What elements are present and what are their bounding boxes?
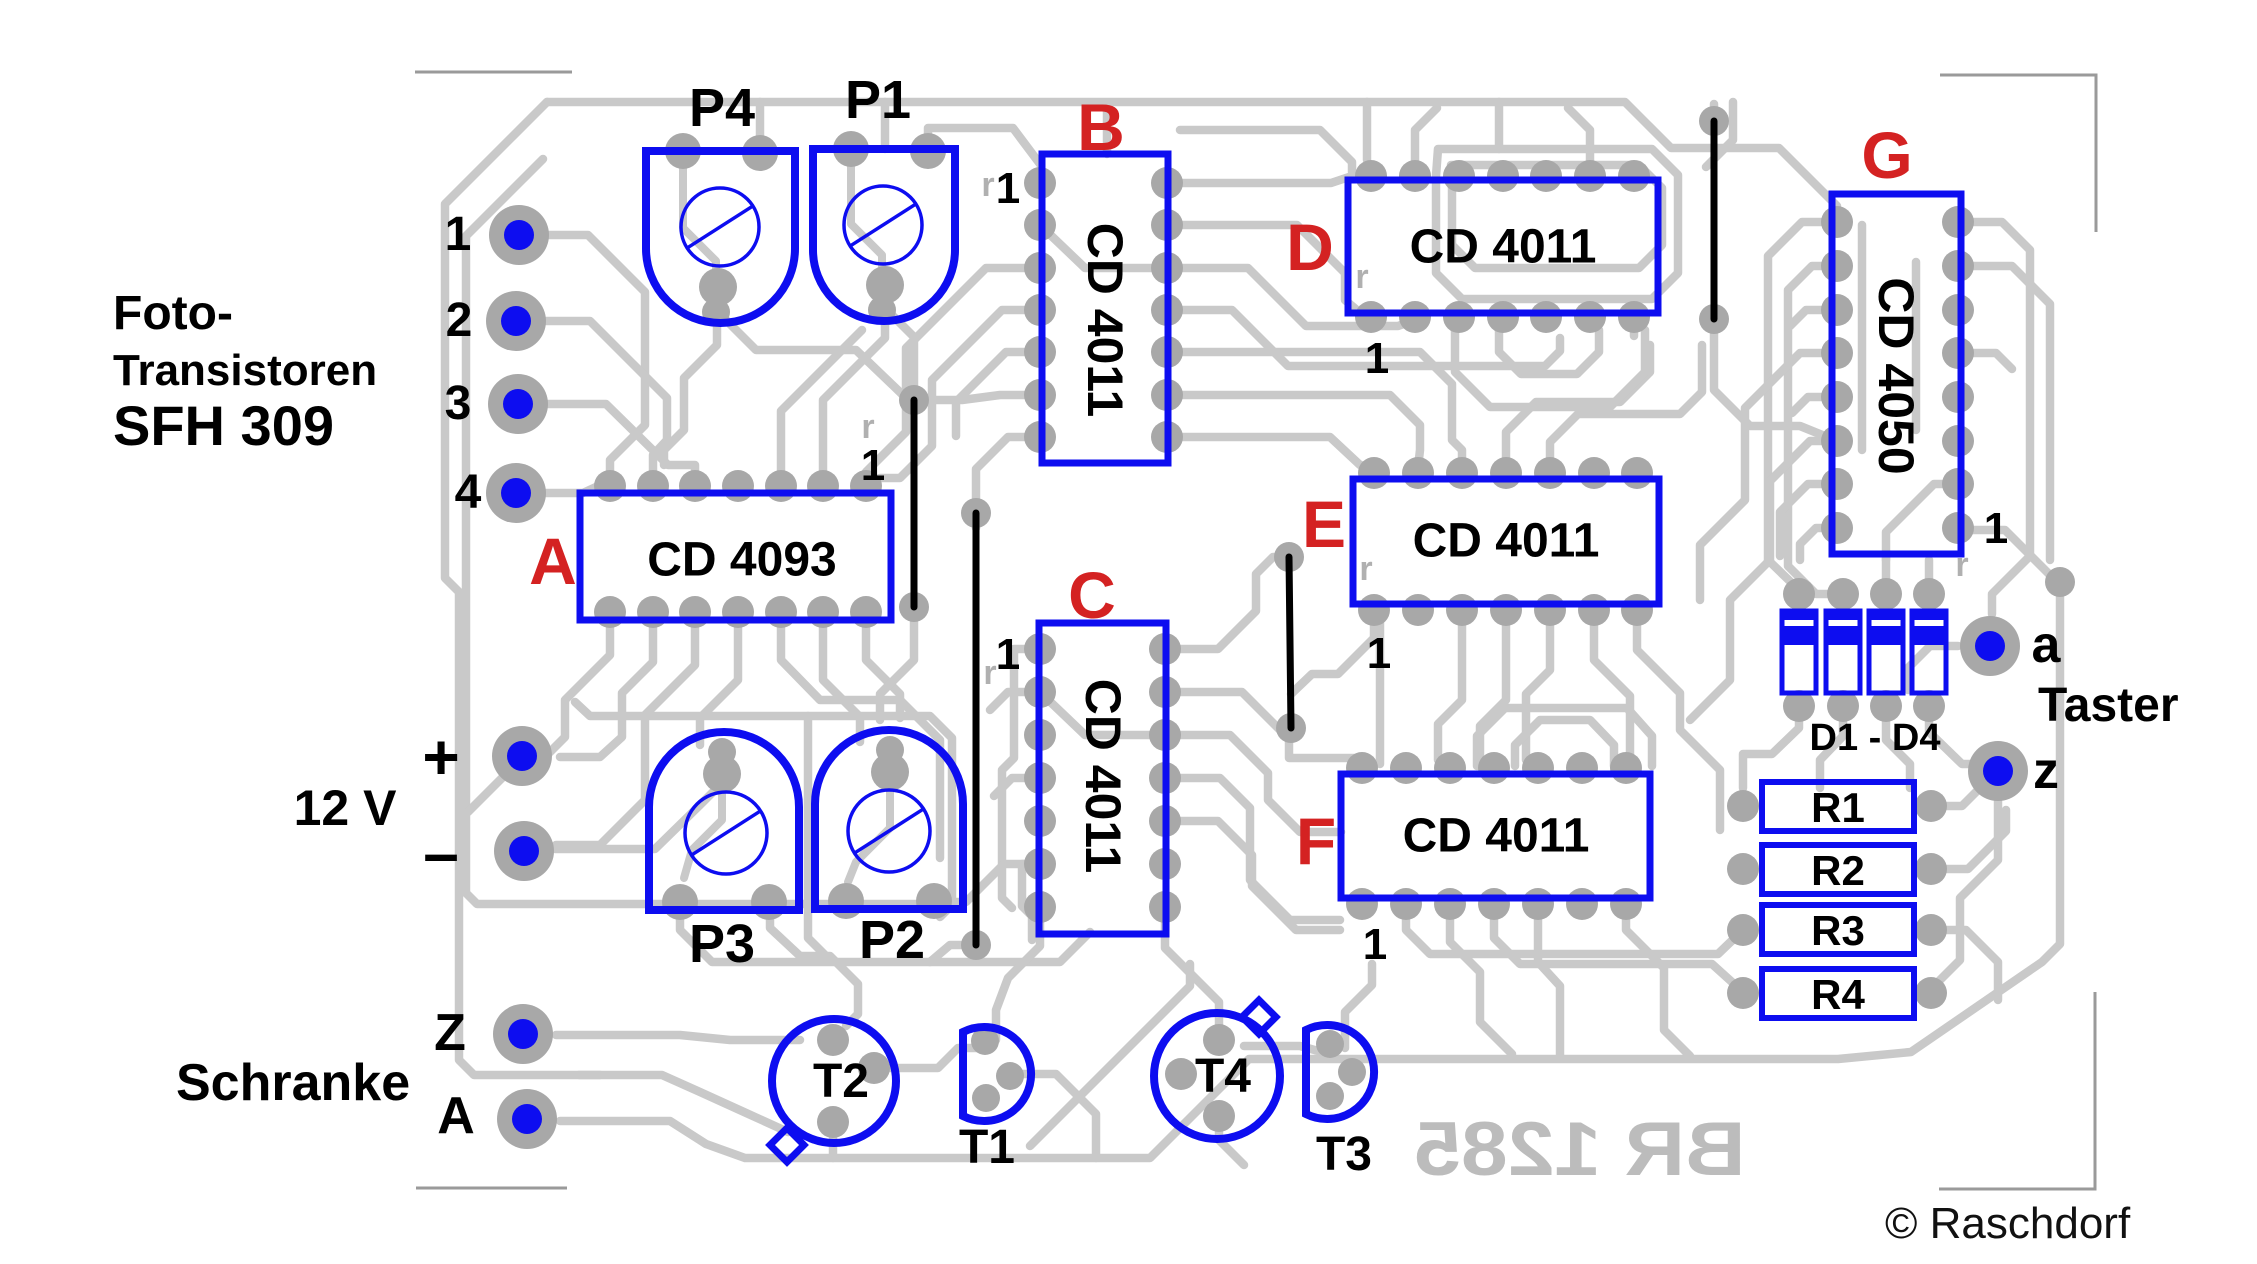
wire P2 interior vertical: [848, 778, 890, 882]
connector pin 3 pad: [488, 374, 548, 434]
connector a pad: [1960, 616, 2020, 676]
diode D1: [1780, 609, 1818, 693]
svg-text:P1: P1: [845, 70, 911, 130]
wire P1 interior vertical: [851, 153, 882, 287]
svg-text:A: A: [529, 524, 577, 598]
svg-text:a: a: [2032, 616, 2062, 674]
wire board outline left edge inner: [466, 159, 940, 904]
wire jumper W2 bottom pad left: [930, 945, 976, 962]
wire IC B right staircase 3: [1167, 352, 1462, 468]
pin1 arrow IC C: [983, 654, 996, 692]
svg-text:G: G: [1861, 118, 1912, 192]
wire IC G right to a pad: [1958, 222, 2030, 614]
wire IC A bottom to P3 area: [700, 623, 738, 745]
trimmer P3: [649, 732, 799, 910]
resistor R3: [1762, 905, 1914, 954]
red letter D: [1286, 210, 1334, 284]
connector A pad: [497, 1089, 557, 1149]
wire board outline left edge outer: [445, 102, 600, 1075]
wire P1 region to jumper W1: [889, 312, 914, 392]
label Transistoren: [113, 346, 377, 395]
wire E left to jumper W3 bottom: [1291, 610, 1374, 694]
wire horizontal above P3 P2: [575, 702, 952, 917]
wire IC B right staircase 1: [1167, 268, 1415, 326]
svg-text:R3: R3: [1811, 907, 1865, 954]
label P1: [845, 70, 911, 130]
wire between trimmers vertical: [808, 716, 828, 958]
wire G left to D3: [1886, 484, 1958, 586]
wire IC B left pads to IC A bundle 1: [866, 268, 1040, 480]
wire G left staircase 5: [1700, 353, 1837, 600]
svg-text:4: 4: [455, 466, 482, 519]
jumper wire W3: [1274, 542, 1306, 743]
svg-text:r: r: [1359, 550, 1372, 588]
wire arc below D inner: [1499, 330, 1599, 374]
svg-text:r: r: [983, 654, 996, 692]
wire plus pad diagonal to edge: [468, 758, 522, 812]
label Taster: [2038, 679, 2179, 732]
svg-text:CD 4011: CD 4011: [1410, 221, 1597, 274]
diode pads D1-D4: [1783, 578, 1945, 722]
wire jumper W1 bottom down: [880, 622, 914, 720]
wire C left pad stub 1: [990, 692, 1040, 710]
red letter F: [1296, 804, 1336, 878]
wire hook above D left: [1415, 108, 1437, 170]
wire E bottom to F top 2: [1526, 610, 1550, 760]
IC B outline: [1042, 154, 1168, 463]
board number BR 1285 (mirrored): [1415, 1107, 1746, 1192]
wire stub above D4: [1925, 560, 1934, 592]
trimmer P1: [813, 149, 955, 321]
wire T2 to T1: [874, 1048, 978, 1068]
wire ring inner around IC D: [1451, 165, 1662, 268]
wire IC G left bundle down to D1: [1768, 222, 1837, 590]
svg-text:2: 2: [446, 294, 473, 347]
wire IC G left pad stub 3: [1790, 310, 1837, 326]
wire C bottom to T1: [996, 907, 1040, 1040]
IC D label: [1410, 221, 1597, 274]
svg-text:R1: R1: [1811, 784, 1865, 831]
wire R2 right stub: [1931, 810, 2006, 869]
IC D pads: [1355, 160, 1650, 333]
IC C pads: [1024, 633, 1181, 923]
wire minus pad to P3 wiper: [555, 783, 722, 849]
wire IC B right pad row2 to IC D pin1: [1167, 225, 1365, 317]
svg-text:Z: Z: [434, 1004, 466, 1062]
wire via near right edge: [2045, 567, 2075, 597]
wire C right extra 1: [1165, 821, 1340, 930]
label 12 V: [294, 780, 398, 836]
diode D4: [1910, 609, 1948, 693]
wire ring outer around IC D: [1436, 149, 1678, 299]
svg-text:T3: T3: [1316, 1128, 1372, 1181]
transistor T4 pads: [1165, 1024, 1235, 1132]
corner mark top-right: [1940, 75, 2096, 232]
red letter C: [1068, 558, 1116, 632]
svg-text:1: 1: [445, 208, 472, 261]
wire D4 bottom to z pad: [1929, 706, 1984, 764]
trimmer P3 pads: [662, 738, 787, 920]
wire F bottom vertical 1: [1450, 904, 1512, 1054]
wire E top to under D 1: [1506, 345, 1650, 468]
wire G interior vertical 1: [1858, 225, 1867, 450]
svg-text:Foto-: Foto-: [113, 287, 233, 340]
wire E bottom to F top 1: [1438, 610, 1462, 760]
label A connector: [437, 1087, 475, 1145]
connector plus pad: [492, 726, 552, 786]
resistor R2 label: [1811, 847, 1865, 894]
label plus: [422, 721, 459, 793]
wire corner to T2 tab: [579, 1075, 788, 1132]
pin1 mark IC B: [996, 164, 1020, 213]
wire E bottom to F top 4: [1480, 610, 1506, 760]
IC C label: [1075, 679, 1131, 874]
wire G bottom pads down: [1882, 554, 1891, 560]
IC A pads: [594, 470, 882, 628]
wire G left staircase 6: [1690, 441, 1837, 720]
resistor R4 label: [1811, 971, 1865, 1018]
wire A bottom nested fan: [556, 623, 695, 845]
svg-text:z: z: [2033, 742, 2059, 800]
connector pin 2 pad: [486, 291, 546, 351]
IC F label: [1403, 810, 1590, 863]
svg-text:D: D: [1286, 210, 1334, 284]
jumper wire W1: [899, 385, 929, 622]
resistor R2: [1762, 845, 1914, 894]
label z: [2033, 742, 2059, 800]
wire left of C vertical 2: [1022, 864, 1040, 940]
wire jumper W4 bottom to IC G: [1714, 319, 1837, 441]
wire jumper W4 top to edge: [1710, 104, 1719, 121]
pin1 arrow IC E: [1359, 550, 1372, 588]
svg-text:1: 1: [1363, 920, 1387, 969]
pin1 arrow IC B: [981, 166, 994, 204]
IC F outline: [1341, 774, 1650, 898]
pin1 mark IC D: [1365, 334, 1389, 383]
svg-text:R2: R2: [1811, 847, 1865, 894]
wire T3 stub up: [1345, 964, 1372, 1048]
wire IC B left pads to IC A bundle 2: [880, 310, 1040, 478]
svg-text:D1 - D4: D1 - D4: [1810, 717, 1941, 759]
svg-text:P3: P3: [689, 914, 755, 974]
label minus: [423, 817, 459, 889]
jumper wire W4: [1699, 106, 1729, 334]
wire D2 bottom down: [1820, 706, 1843, 788]
label SFH 309: [113, 394, 334, 457]
wire C left pad stub 2: [994, 778, 1040, 796]
IC B pads: [1024, 167, 1183, 453]
svg-text:1: 1: [1365, 334, 1389, 383]
label pin 1: [445, 208, 472, 261]
svg-text:CD 4011: CD 4011: [1403, 810, 1590, 863]
IC E pads: [1358, 457, 1653, 626]
label Schranke: [176, 1054, 410, 1112]
wire IC A bottom fan 2: [560, 623, 653, 757]
wire IC G right pad stub: [1958, 353, 2012, 369]
svg-text:r: r: [981, 166, 994, 204]
label P3: [689, 914, 755, 974]
wire z pad down to R4: [1938, 801, 1998, 982]
IC D outline: [1348, 180, 1658, 313]
copyright Raschdorf: [1885, 1199, 2131, 1248]
wire P4 region to jumper W1: [718, 312, 905, 397]
trimmer P2 pads: [828, 736, 952, 919]
pin1 arrow IC D: [1355, 258, 1368, 296]
pin1 mark IC C: [996, 630, 1020, 679]
wire top link to D pin1: [1180, 130, 1352, 172]
svg-text:Schranke: Schranke: [176, 1054, 410, 1112]
wire C interior link: [1040, 692, 1165, 735]
wire C top left feeder: [972, 513, 981, 528]
wire left of C vertical 1: [1002, 649, 1040, 908]
label pin 4: [455, 466, 482, 519]
wire top stub P4 pad right: [756, 102, 765, 155]
svg-text:3: 3: [445, 377, 472, 430]
wire T4 bottom to board edge: [1219, 1116, 1244, 1165]
wire P1 wiper down-left to IC A: [823, 300, 885, 478]
transistor T3 pads: [1316, 1030, 1366, 1110]
svg-text:BR 1285: BR 1285: [1415, 1107, 1746, 1192]
transistor T2 pads: [817, 1024, 890, 1138]
wire G left staircase 7: [1780, 484, 1837, 556]
svg-text:Taster: Taster: [2038, 679, 2179, 732]
wire G interior vertical 2: [1912, 262, 1921, 430]
svg-text:T2: T2: [813, 1055, 869, 1108]
diode D3: [1867, 609, 1905, 693]
svg-text:T4: T4: [1195, 1050, 1251, 1103]
wire IC B right staircase 2: [1167, 310, 1560, 366]
svg-text:1: 1: [996, 164, 1020, 213]
svg-text:12 V: 12 V: [294, 780, 398, 836]
wire IC A bottom to plus pad: [549, 623, 610, 753]
red letter E: [1302, 487, 1346, 561]
wire IC B left pad to jumper W1: [930, 395, 1040, 400]
label Z: [434, 1004, 466, 1062]
svg-text:CD 4011: CD 4011: [1077, 223, 1133, 418]
diode D2: [1824, 609, 1862, 693]
wire hook above D right: [1568, 108, 1590, 170]
wire E top to under D 2: [1550, 345, 1702, 468]
svg-text:CD 4011: CD 4011: [1075, 679, 1131, 874]
wire C left pads to P2: [934, 864, 1040, 902]
svg-text:P4: P4: [689, 78, 755, 138]
wire E pin1 to F pin1 vertical: [1376, 612, 1385, 764]
wire arc above F inner: [1515, 720, 1614, 766]
connector z pad: [1968, 741, 2028, 801]
wire C right pads to IC F 2: [1165, 735, 1341, 832]
wire IC B right staircase 5: [1167, 437, 1374, 468]
wire C right pads to IC F 1: [1165, 692, 1362, 766]
transistor T1 pads: [971, 1027, 1024, 1112]
IC E outline: [1353, 479, 1659, 604]
svg-text:E: E: [1302, 487, 1346, 561]
IC B label: [1077, 223, 1133, 418]
svg-text:© Raschdorf: © Raschdorf: [1885, 1199, 2131, 1248]
red letter G: [1861, 118, 1912, 192]
wire T2 bottom pad down: [829, 1122, 838, 1158]
wire IC G right down right: [1958, 266, 2050, 560]
wire F bottom vertical 2: [1538, 904, 1560, 1056]
wire IC B left pad to jumper W2: [976, 437, 1040, 498]
IC F pads: [1346, 752, 1642, 920]
wire F bottom to R4: [1494, 904, 1743, 992]
wire arc above F outer: [1477, 708, 1652, 766]
svg-text:C: C: [1068, 558, 1116, 632]
label pin 2: [446, 294, 473, 347]
trimmer P1 pads: [833, 131, 946, 324]
pin1 mark IC G: [1984, 504, 2008, 553]
wire arc below D outer: [1455, 330, 1645, 407]
corner mark bottom-left: [416, 1187, 567, 1190]
transistor T2: [770, 1019, 896, 1162]
wire T4 to T3 link: [1244, 1046, 1322, 1052]
wire pin2 fan to IC A: [545, 321, 667, 482]
wire P3 interior vertical: [684, 780, 722, 878]
label T3: [1316, 1128, 1372, 1181]
wire IC G left pad stub 4: [1792, 397, 1837, 413]
red letter B: [1077, 90, 1125, 164]
transistor T4: [1154, 1000, 1280, 1139]
pin1 mark IC A: [861, 441, 885, 490]
wire pin3 fan to IC A: [546, 404, 695, 482]
wire B interior link: [1040, 225, 1165, 268]
wire top stub into IC B: [1103, 104, 1112, 154]
wire R3 right stub: [1931, 930, 1998, 1000]
wire IC B right pad row1 to IC D: [1167, 176, 1371, 183]
wire stub IC D top 1: [1363, 102, 1372, 160]
IC A outline: [580, 493, 891, 620]
wire D1-D4 bottoms to R1: [1743, 706, 1799, 788]
wire G left staircase 8: [1800, 528, 1837, 560]
wire T1 right diagonal: [1011, 1074, 1096, 1158]
wire C bottom to T4: [1165, 907, 1219, 1032]
IC C outline: [1039, 623, 1166, 934]
pin1 mark IC E: [1367, 629, 1391, 678]
jumper wire W2: [961, 498, 991, 960]
wire R right pads to z: [1931, 784, 1984, 806]
corner mark top-left: [415, 71, 572, 74]
resistor R4: [1762, 969, 1914, 1018]
wire P4 interior vertical: [683, 157, 716, 289]
wire pin4 to IC A pin1: [544, 487, 606, 493]
resistor R1: [1762, 782, 1914, 831]
svg-text:A: A: [437, 1087, 475, 1145]
wire T1 diagonal up right: [1030, 964, 1190, 1146]
IC G label: [1868, 277, 1924, 474]
wire F bottom to R3: [1406, 904, 1743, 954]
svg-text:1: 1: [1984, 504, 2008, 553]
svg-text:r: r: [1955, 546, 1968, 584]
wire board outline top edge: [547, 102, 1837, 206]
trimmer P4 pads: [665, 133, 778, 326]
wire P1 lower diagonal to IC A: [781, 330, 862, 478]
svg-text:B: B: [1077, 90, 1125, 164]
IC G pads: [1821, 206, 1974, 544]
connector pin 1 pad: [489, 205, 549, 265]
svg-text:F: F: [1296, 804, 1336, 878]
label T4: [1195, 1050, 1251, 1103]
wire top stub P1 middle: [881, 102, 890, 149]
wire C right pads to IC F 3: [1165, 778, 1340, 920]
wire C top pad to jumper W3: [1165, 557, 1289, 649]
svg-text:r: r: [861, 408, 874, 446]
red letter A: [529, 524, 577, 598]
pin1 arrow IC G: [1955, 546, 1968, 584]
IC E label: [1413, 515, 1600, 568]
pin1 arrow IC A: [861, 408, 874, 446]
wire bundle below A to C: [781, 623, 940, 858]
wire P1 top-right pad to IC B pin1: [928, 128, 1040, 164]
wire stub IC D top 2: [1495, 102, 1504, 149]
svg-text:CD 4093: CD 4093: [647, 534, 836, 587]
wire A bottom pad 7 down: [866, 623, 900, 718]
label Foto-: [113, 287, 233, 340]
diodes label D1-D4: [1810, 717, 1941, 759]
wire E bottom to F top 3: [1594, 610, 1630, 760]
svg-text:R4: R4: [1811, 971, 1865, 1018]
connector pin 4 pad: [486, 463, 546, 523]
svg-text:+: +: [422, 721, 459, 793]
wire Z pad to transistor T2 top: [556, 1035, 800, 1040]
svg-text:CD 4011: CD 4011: [1413, 515, 1600, 568]
svg-text:–: –: [423, 817, 459, 889]
transistor T1: [963, 1027, 1031, 1121]
svg-text:SFH 309: SFH 309: [113, 394, 334, 457]
wire E right down: [1637, 610, 1720, 830]
wire IC B right staircase 4: [1167, 395, 1420, 468]
wire D3 bottom down: [1886, 706, 1910, 788]
label T2: [813, 1055, 869, 1108]
wire P4 wiper down to fan: [664, 300, 717, 465]
svg-text:1: 1: [861, 441, 885, 490]
label pin 3: [445, 377, 472, 430]
trimmer P2: [815, 730, 963, 909]
svg-text:CD 4050: CD 4050: [1868, 277, 1924, 474]
svg-text:P2: P2: [859, 910, 925, 970]
corner mark bottom-right: [1939, 992, 2095, 1189]
wire IC B left pad stub 3: [956, 352, 1040, 436]
wire F bottom right stub: [1626, 904, 1690, 1056]
resistor R3 label: [1811, 907, 1865, 954]
label P2: [859, 910, 925, 970]
svg-text:1: 1: [1367, 629, 1391, 678]
IC G outline: [1832, 194, 1961, 554]
wire P2 bottom to lower bundle: [770, 905, 858, 1026]
label a: [2032, 616, 2062, 674]
connector Z pad: [493, 1004, 553, 1064]
label T1: [959, 1121, 1015, 1174]
IC A label: [647, 534, 836, 587]
svg-text:Transistoren: Transistoren: [113, 346, 377, 395]
resistor pads R1-R4: [1727, 790, 1947, 1009]
wire stub IC D top 3: [1706, 102, 1733, 167]
trimmer P4: [646, 151, 795, 323]
wire P3 bottom to lower bundle: [680, 905, 1090, 962]
wire IC G left bundle down to D2: [1788, 266, 1843, 594]
svg-text:r: r: [1355, 258, 1368, 296]
wire a pad left stub: [1908, 646, 1958, 690]
svg-text:T1: T1: [959, 1121, 1015, 1174]
label P4: [689, 78, 755, 138]
wire pin1 fan to IC A: [548, 235, 645, 482]
wire IC A bottom to P2 area: [823, 623, 860, 742]
connector minus pad: [494, 821, 554, 881]
pin1 mark IC F: [1363, 920, 1387, 969]
wire IC D right to ring: [1630, 317, 1639, 336]
resistor R1 label: [1811, 784, 1865, 831]
wire board outline bottom edge: [560, 530, 2060, 1158]
svg-text:1: 1: [996, 630, 1020, 679]
